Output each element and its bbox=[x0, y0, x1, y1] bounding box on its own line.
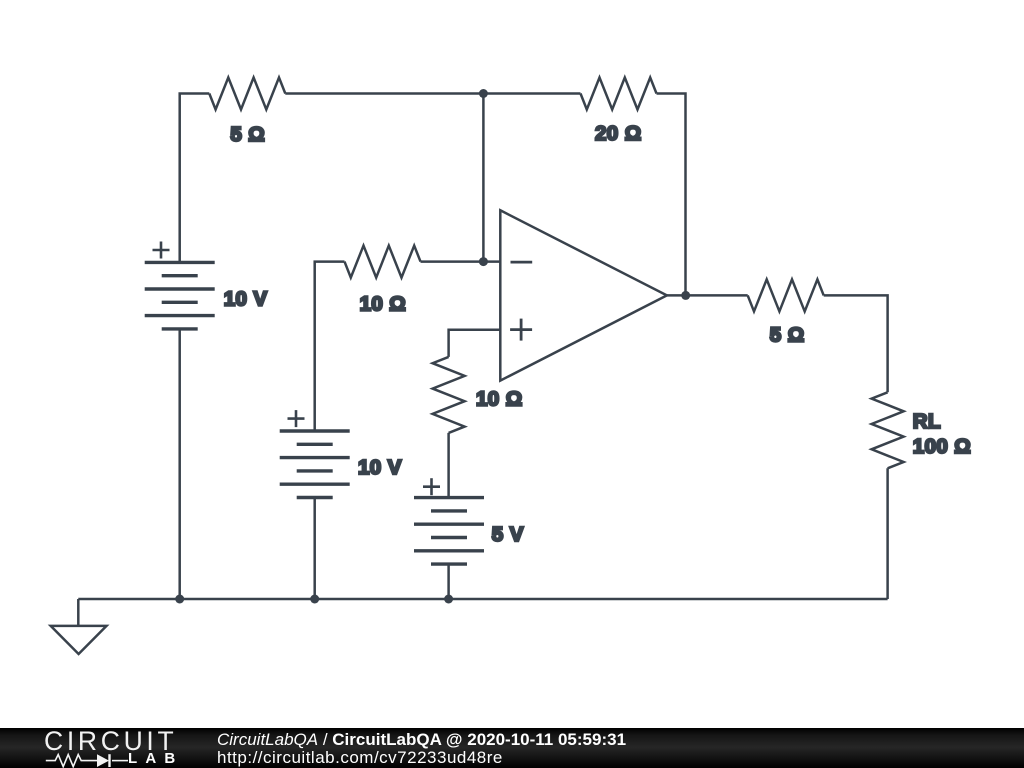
svg-text:5 V: 5 V bbox=[492, 523, 524, 546]
svg-text:5 Ω: 5 Ω bbox=[770, 324, 805, 347]
svg-text:5 Ω: 5 Ω bbox=[230, 123, 265, 146]
svg-text:100 Ω: 100 Ω bbox=[913, 435, 971, 458]
svg-text:10 Ω: 10 Ω bbox=[360, 293, 407, 316]
svg-text:RL: RL bbox=[913, 410, 941, 433]
svg-text:20 Ω: 20 Ω bbox=[595, 122, 642, 145]
svg-text:10 V: 10 V bbox=[224, 288, 268, 311]
svg-text:10 Ω: 10 Ω bbox=[476, 388, 523, 411]
svg-text:10 V: 10 V bbox=[358, 456, 402, 479]
